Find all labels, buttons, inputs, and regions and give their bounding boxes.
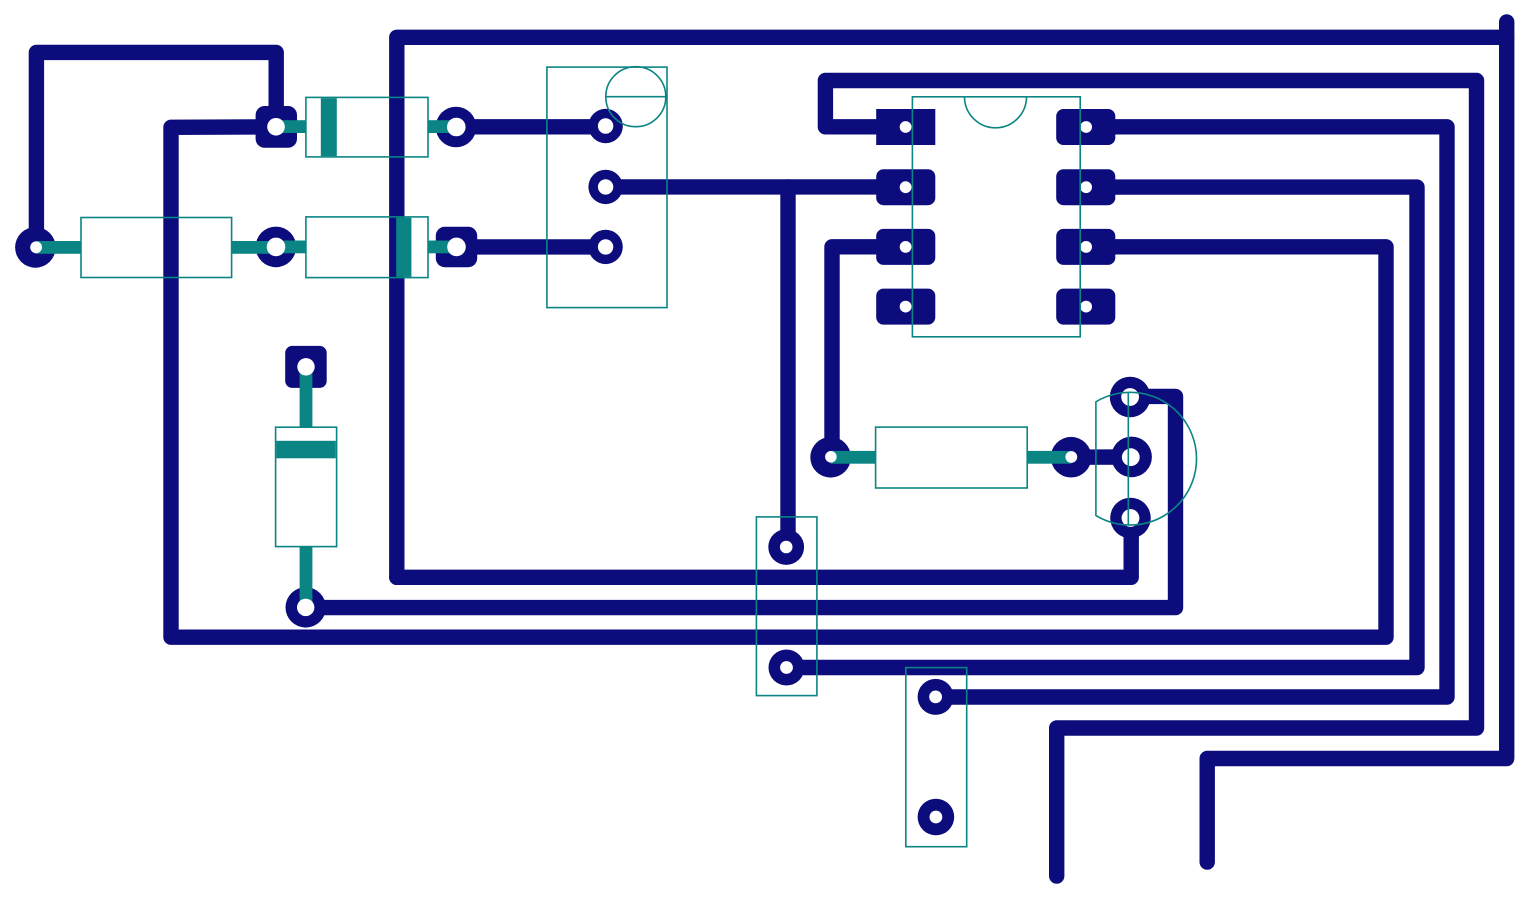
diode D1 lead left — [276, 120, 306, 133]
wire net10: top rail from x396.8 vertical to outer right vertical — [397, 37, 1507, 577]
IC U1 outline — [912, 97, 1080, 337]
IC U1 pin 5 pad — [1056, 289, 1115, 325]
drill holes layer (white, on top of pads and leads) — [30, 118, 1140, 824]
transistor Q1 chord line — [1127, 393, 1129, 525]
pad R2 left (round) — [810, 437, 851, 478]
IC U1 pin 1 pad (rectangular) — [876, 109, 935, 145]
wire net12: y577 rail right to transistor bottom pad — [397, 518, 1131, 577]
resistor R1 lead right — [232, 241, 276, 254]
capacitor C1 band — [276, 441, 335, 459]
pad connector J1 pin 2 — [588, 170, 622, 204]
wire net2: IC pin6 right pad to x1386 down, left along y638, up x171 to square pad — [171, 127, 1386, 637]
hole X1 bottom — [780, 661, 793, 674]
connector J1 circle chord line — [606, 96, 667, 98]
capacitor C1 lead bottom — [300, 547, 313, 607]
hole pad D2 right — [447, 238, 466, 257]
pad connector J1 pin 1 — [588, 109, 622, 143]
hole J1 pin2 — [598, 179, 613, 194]
wire net8: IC pin8 right pad right, down x1447, left along y697 to X2 top pad — [936, 127, 1447, 697]
hole R2 left — [825, 451, 837, 463]
resistor R2 outline — [876, 427, 1028, 488]
diode D2 lead right — [428, 241, 457, 254]
resistor R1 outline — [81, 218, 232, 278]
pad X2 bottom (round) — [918, 799, 955, 836]
hole U1 pin5 — [1080, 301, 1092, 313]
pad P1 (round, node A) — [15, 227, 56, 268]
hole J1 pin1 — [598, 118, 613, 133]
hole U1 pin2 — [900, 181, 912, 193]
silkscreen layer (teal outlines on top) — [81, 67, 1197, 847]
hole pad R1/D2 — [267, 238, 286, 257]
IC U1 pin 6 pad — [1056, 229, 1115, 265]
wire net4: D2 right square pad to connector pin3 — [457, 239, 607, 254]
component X2 outline — [906, 668, 967, 847]
hole C1 top — [297, 358, 314, 375]
wire net14: R2 right pad to transistor middle pad — [1071, 449, 1131, 465]
hole Q1 pad1 — [1121, 388, 1139, 406]
capacitor C1 lead top — [300, 367, 313, 427]
diode D1 band — [321, 98, 337, 156]
IC U1 notch — [965, 97, 1027, 128]
hole square pad D1 left — [267, 118, 285, 136]
hole J1 pin3 — [598, 239, 613, 254]
hole U1 pin7 — [1080, 181, 1092, 193]
transistor Q1 pad 1 (top) — [1110, 377, 1151, 418]
hole X2 bottom — [930, 811, 943, 824]
pad capacitor C1 top (square) — [285, 346, 327, 388]
hole X2 top — [929, 691, 942, 704]
hole Q1 pad2 — [1122, 448, 1140, 466]
hole U1 pin6 — [1080, 241, 1092, 253]
hole pad D1 right — [447, 118, 466, 137]
pads layer — [15, 106, 1152, 835]
diode D2 lead left — [276, 241, 306, 254]
pad square at D1 left / junction — [256, 106, 297, 148]
IC U1 pin 3 pad — [876, 229, 935, 265]
wire net6: IC pin1 left, up over to right edge, down, left along y728, down to stub — [825, 81, 1476, 877]
capacitor C1 outline — [276, 427, 337, 546]
wire net7: IC pin3 left pad down to R2 left pad — [832, 247, 906, 457]
diode D2 outline — [306, 217, 428, 278]
diode D1 outline — [306, 97, 428, 156]
pad D1 right (round) — [436, 107, 477, 148]
pad R2 right (round) — [1051, 437, 1092, 478]
hole U1 pin8 — [1080, 121, 1092, 133]
hole U1 pin4 — [900, 301, 912, 313]
IC U1 pin 8 pad — [1056, 109, 1115, 145]
diode D1 lead right — [428, 120, 456, 133]
component X1 outline — [756, 517, 817, 696]
connector J1 pin1 circle marker — [606, 67, 666, 127]
leads layer (teal component leads drawn over pads) — [36, 120, 1072, 607]
hole Q1 pad3 — [1122, 509, 1140, 527]
hole P1 — [30, 241, 42, 253]
hole U1 pin3 — [900, 241, 912, 253]
wire net5: connector pin2 to IC pin2 left pad — [606, 179, 906, 194]
pad X1 bottom (round) — [769, 650, 805, 686]
pad X2 top (round) — [918, 679, 954, 715]
transistor Q1 pad 3 (bottom) — [1110, 498, 1151, 539]
pad D2 right (square) — [436, 227, 477, 268]
resistor R1 lead left — [36, 241, 81, 254]
wire net11: outer right vertical down, left along y758.5, down to stub — [1207, 22, 1507, 862]
wire net3: D1 right pad to connector pin1 — [456, 119, 606, 134]
pad X1 top (round) — [768, 529, 804, 565]
hole X1 top — [780, 541, 793, 554]
resistor R2 lead left — [831, 451, 876, 464]
connector J1 outline — [547, 67, 667, 308]
hole R2 right — [1065, 451, 1077, 463]
transistor Q1 pad 2 (middle) — [1111, 437, 1152, 478]
hole U1 pin1 — [900, 121, 912, 133]
wire net5 branch: down to pad X1 top — [780, 187, 795, 547]
IC U1 pin 7 pad — [1056, 169, 1115, 205]
wire net1: pad P1 up and over to square pad at D1 — [36, 52, 276, 247]
pad round between R1 and D2 — [256, 227, 297, 268]
hole C1 bottom — [297, 599, 314, 616]
pad connector J1 pin 3 — [588, 230, 622, 264]
IC U1 pin 4 pad — [876, 289, 935, 325]
wire net13: transistor top pad right, down x1175.5, left along y607.8 to C1 bottom pad — [306, 396, 1176, 607]
wire net9: IC pin7 right pad right, down x1417, left along y667.5 to X1 bottom pad — [787, 187, 1418, 667]
transistor Q1 outline (TO-92) — [1096, 392, 1197, 525]
resistor R2 lead right — [1027, 451, 1071, 464]
IC U1 pin 2 pad — [876, 169, 935, 205]
pad capacitor C1 bottom (round) — [286, 587, 326, 627]
diode D2 band — [396, 218, 411, 277]
